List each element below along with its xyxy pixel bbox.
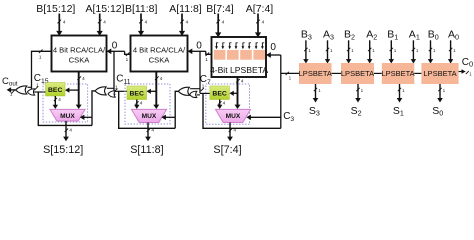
svg-text:0: 0 [196,41,202,52]
adder block U1: 4 Bit RCA/CLA/CSKA [52,36,107,72]
svg-text:MUX: MUX [60,113,75,120]
wire sum bus 3 branch into BEC3 [229,91,237,96]
BEC U5 [127,86,147,100]
wire G3a output down to MUX2 select [175,91,178,128]
or-gate G1a (carry-out gate) [16,86,27,94]
wire U sum out S0, tick 1 [437,84,446,103]
tick 1 at C15 [35,83,39,90]
svg-text:4: 4 [145,20,148,25]
svg-text:BEC: BEC [48,87,62,94]
wire A0 input arrow, 1-bit tick [448,40,456,63]
wire stub into or-gate G1a [28,86,32,88]
svg-text:4-Bit LPSBETA: 4-Bit LPSBETA [210,65,268,75]
svg-text:B[15:12]: B[15:12] [36,3,75,15]
wire carry into U2 with branch to gate cluster 3 [188,48,212,93]
dashed box BEC/MUX stage 1 [43,84,88,122]
svg-text:1: 1 [10,92,13,97]
svg-text:LPSBETA: LPSBETA [299,69,332,78]
svg-text:4: 4 [151,128,154,133]
mux MUX3 [216,109,251,122]
svg-text:B[7:4]: B[7:4] [206,3,234,15]
svg-text:4: 4 [69,128,72,133]
wire C_out arrow with tick 1 [7,87,16,96]
wire A1 input arrow, 1-bit tick [411,40,419,63]
wire B0 input arrow, 1-bit tick [428,40,436,63]
wire U1 sum bus to MUX1, 4-bit tick [76,72,85,110]
svg-text:4: 4 [222,20,225,25]
svg-text:BEC: BEC [212,91,226,98]
svg-text:4: 4 [63,20,66,25]
wire G2a output down to MUX1 select [92,91,95,126]
wire bus A[7:4] into adder, 4-bit tick [255,14,265,38]
mux MUX2 [132,109,167,122]
svg-text:1: 1 [126,57,129,62]
BEC U4 [46,83,66,97]
wire sum bus 1 branch into BEC1 [65,88,79,93]
wire A3 input arrow, 1-bit tick [325,40,333,63]
svg-text:4: 4 [186,20,189,25]
wire bus B[15:12] into adder, 4-bit tick [56,14,66,36]
svg-text:4: 4 [241,79,244,84]
svg-text:4: 4 [82,76,85,81]
wire MUX3 output, 4-bit tick [227,123,236,142]
bit adder U10: LPSBETA [421,63,458,84]
wire MUX2 output, 4-bit tick [145,123,154,142]
wire B3 input arrow, 1-bit tick [303,40,311,63]
bit adder U9: LPSBETA [381,63,414,84]
svg-text:LPSBETA: LPSBETA [423,69,456,78]
svg-text:CSKA: CSKA [149,55,171,64]
wire U sum out S2, tick 1 [355,84,364,103]
wire bus B[7:4] into adder, 4-bit tick [215,14,225,38]
wire sum bus 2 branch into BEC2 [147,89,157,94]
wire U1 carry-out to gate cluster 1 [32,51,52,90]
wire U sum out S1, tick 1 [397,84,406,103]
svg-text:C0: C0 [462,57,473,69]
wire bus B[11:8] into adder, 4-bit tick [138,14,148,36]
wire U3 sum bus to MUX3, 4-bit tick [235,77,244,109]
outer wire frame stage 1 [38,92,92,125]
svg-text:A[15:12]: A[15:12] [85,3,124,15]
svg-text:1: 1 [115,84,118,89]
wire stub into or-gate G2a [107,87,114,89]
wire select into MUX1 [80,115,92,120]
mux MUX1 [50,109,85,121]
or-gate G2a [95,87,106,95]
wire bus A[15:12] into adder, 4-bit tick [97,14,107,36]
wire U2 sum bus to MUX2, 4-bit tick [153,72,162,110]
wire carry into U3 from C3 riser [266,52,281,58]
svg-text:B[11:8]: B[11:8] [125,3,158,15]
bit adder U8: LPSBETA [341,63,374,84]
wire C3 riser [280,55,282,128]
wire select into MUX2 [161,115,175,120]
wire BEC1 to MUX1, 4-bit tick [53,96,62,109]
bit adder U7: LPSBETA [299,63,332,84]
wire U10 to U9 [414,72,421,74]
svg-text:4: 4 [103,20,106,25]
svg-text:A[7:4]: A[7:4] [246,3,274,15]
wire gate cluster 1 to BEC1 [34,91,45,93]
svg-text:4: 4 [140,101,143,106]
svg-text:A[11:8]: A[11:8] [169,3,202,15]
svg-text:4: 4 [58,97,61,102]
svg-text:LPSBETA: LPSBETA [341,69,374,78]
svg-text:4 Bit RCA/CLA/: 4 Bit RCA/CLA/ [53,45,106,54]
svg-text:1: 1 [202,83,205,88]
wire bus A[11:8] into adder, 4-bit tick [179,14,189,36]
adder block U2: 4 Bit RCA/CLA/CSKA [131,36,188,72]
wire stub into or-gate G3a [190,88,200,90]
or-gate G3a [178,87,189,95]
svg-text:0: 0 [112,41,118,52]
gate G3b [190,91,197,97]
wire select C3 into MUX3 [246,115,280,120]
svg-text:S[15:12]: S[15:12] [43,144,83,156]
wire U8 to U7 [332,72,342,74]
wire C0 output arrow, tick 1 [459,69,473,76]
adder block U3: 4-Bit LPSBETA [210,37,268,77]
gate G1b [27,89,34,95]
dashed box BEC/MUX stage 2 [125,84,170,124]
outer wire frame stage 3 [203,93,281,128]
svg-text:4: 4 [160,76,163,81]
tiny bit-input arrows inside U3 [215,43,264,49]
BEC U6 [210,86,230,100]
outer wire frame stage 2 [119,91,176,128]
svg-text:BEC: BEC [130,91,144,98]
svg-text:0: 0 [270,42,276,53]
wire BEC3 to MUX3, 4-bit tick [217,100,226,110]
svg-text:LPSBETA: LPSBETA [381,69,414,78]
wire gate cluster 2 to BEC2 [114,90,127,92]
svg-text:4: 4 [233,128,236,133]
dashed box BEC/MUX stage 3 [206,84,250,124]
wire BEC2 to MUX2, 4-bit tick [134,100,143,110]
tick 1 at C11 [114,84,118,91]
svg-text:1: 1 [39,55,42,60]
wire A2 input arrow, 1-bit tick [367,40,375,63]
wire carry into U1 with branch to gate cluster 2 [107,48,131,91]
svg-text:MUX: MUX [142,113,157,120]
wire U7 carry out to C3 riser, tick 1 [281,72,299,81]
svg-text:4 Bit RCA/CLA/: 4 Bit RCA/CLA/ [133,45,186,54]
svg-text:1: 1 [205,57,208,62]
gate G2b [108,91,115,97]
wire B1 input arrow, 1-bit tick [389,40,397,63]
svg-text:S[7:4]: S[7:4] [213,144,241,156]
tick 1 at C7 [201,83,205,91]
wire MUX1 output, 4-bit tick [63,121,72,141]
wire U9 to U8 [374,72,382,74]
wire gate cluster 3 to BEC3 [200,92,210,94]
wire B2 input arrow, 1-bit tick [346,40,354,63]
svg-text:S[11:8]: S[11:8] [130,144,163,156]
svg-text:MUX: MUX [226,113,241,120]
svg-text:CSKA: CSKA [69,55,91,64]
svg-text:4: 4 [223,101,226,106]
svg-text:4: 4 [262,20,265,25]
wire U sum out S3, tick 1 [313,84,322,103]
tick 1 on U1 carry-out [39,50,43,60]
